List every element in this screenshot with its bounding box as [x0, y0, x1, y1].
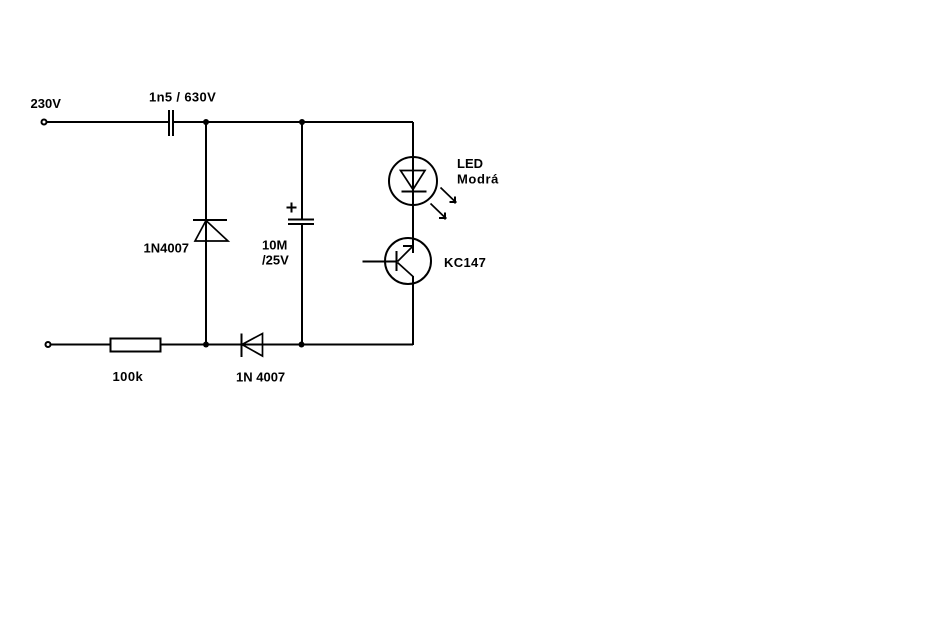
svg-text:10M: 10M — [262, 238, 287, 253]
diode D2 1N 4007 cathode bar — [241, 334, 243, 358]
diode D2 1N 4007 triangle — [242, 334, 263, 357]
transistor Q1 collector diagonal — [398, 263, 414, 277]
svg-text:KC147: KC147 — [444, 255, 486, 270]
terminal 230V live input — [42, 120, 47, 125]
capacitor C1 1n5/630V left plate — [168, 110, 170, 136]
transistor Q1 base lead wire — [363, 261, 397, 263]
transistor Q1 emitter diagonal — [398, 247, 413, 262]
LED light arrow 1 — [441, 188, 457, 204]
svg-text:230V: 230V — [31, 96, 62, 111]
wire bottom rail left (terminal to R1) — [51, 344, 111, 346]
wire D1 branch vertical — [205, 122, 207, 344]
wire C2 branch vertical upper — [301, 122, 303, 219]
transistor Q1 emitter arrow barb — [403, 245, 413, 247]
resistor R1 100k body — [111, 339, 161, 352]
wire top rail right (C1 to LED branch corner) — [174, 121, 413, 123]
capacitor C2 polarity plus sign — [287, 203, 297, 213]
diode D1 1N4007 triangle — [195, 221, 228, 242]
LED D3 cathode bar — [402, 191, 427, 193]
transistor Q1 base bar — [396, 251, 398, 271]
capacitor C1 1n5/630V right plate — [172, 110, 174, 136]
svg-text:1n5 / 630V: 1n5 / 630V — [149, 90, 216, 105]
svg-text:1N4007: 1N4007 — [144, 241, 190, 256]
junction node A (top rail / D1 branch) — [203, 119, 209, 125]
wire LED branch vertical (top rail through LED to Q1 emitter) — [412, 122, 414, 253]
LED light arrow 2 — [431, 204, 447, 220]
svg-text:1N 4007: 1N 4007 — [236, 370, 285, 385]
svg-text:LED: LED — [457, 156, 483, 171]
svg-text:100k: 100k — [113, 369, 144, 384]
terminal neutral input — [46, 342, 51, 347]
capacitor C2 top plate — [288, 219, 314, 221]
capacitor C2 bottom plate — [288, 223, 314, 225]
wire top rail left (terminal to C1) — [47, 121, 168, 123]
wire bottom rail (R1 to collector corner) — [161, 344, 414, 346]
svg-text:Modrá: Modrá — [457, 172, 499, 187]
wire C2 branch vertical lower — [301, 225, 303, 344]
svg-text:/25V: /25V — [262, 253, 289, 268]
junction node D (bottom rail / C2 branch) — [299, 342, 305, 348]
LED D3 triangle — [401, 171, 426, 190]
wire Q1 collector to bottom rail — [412, 276, 414, 345]
junction node B (top rail / C2 branch) — [299, 119, 305, 125]
LED D3 circle — [389, 157, 437, 205]
transistor Q1 KC147 circle — [385, 238, 431, 284]
junction node C (bottom rail / D1 branch) — [203, 342, 209, 348]
diode D1 1N4007 cathode bar — [193, 219, 227, 221]
